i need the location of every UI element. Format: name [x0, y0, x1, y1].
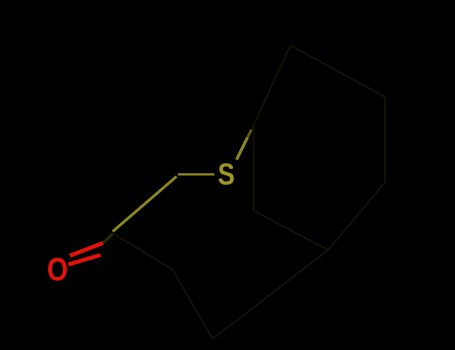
svg-text:O: O [47, 251, 68, 287]
bond S-Cf fading tip [248, 130, 252, 138]
bond S-Cf (bright half near S) [237, 138, 248, 160]
bond Cd-Ce (ring bottom) [254, 211, 329, 251]
bond Ce-Cf (ring left vertical) [253, 126, 255, 211]
bond C1=O inner double-bond line [69, 255, 101, 264]
bond E-D (chain) [173, 270, 213, 340]
bond C1=O main line (dark half near C1) [103, 234, 113, 244]
bond Cf-Ca (dark, to ring apex) [252, 46, 291, 130]
bond Cd-E (bridge chain) [213, 250, 329, 339]
bond Cb-Cc (ring right vertical) [384, 97, 386, 183]
bond C1=O main line (red half near O) [70, 243, 103, 256]
bond Cc-Cd (ring lower right) [328, 183, 385, 251]
bond D-C1 (chain to carbonyl) [113, 234, 173, 270]
bond C1-C2 [113, 177, 177, 232]
svg-text:S: S [218, 157, 235, 192]
bond Ca-Cb (ring top right) [291, 46, 386, 98]
bond C2-S (horizontal) [178, 173, 215, 175]
